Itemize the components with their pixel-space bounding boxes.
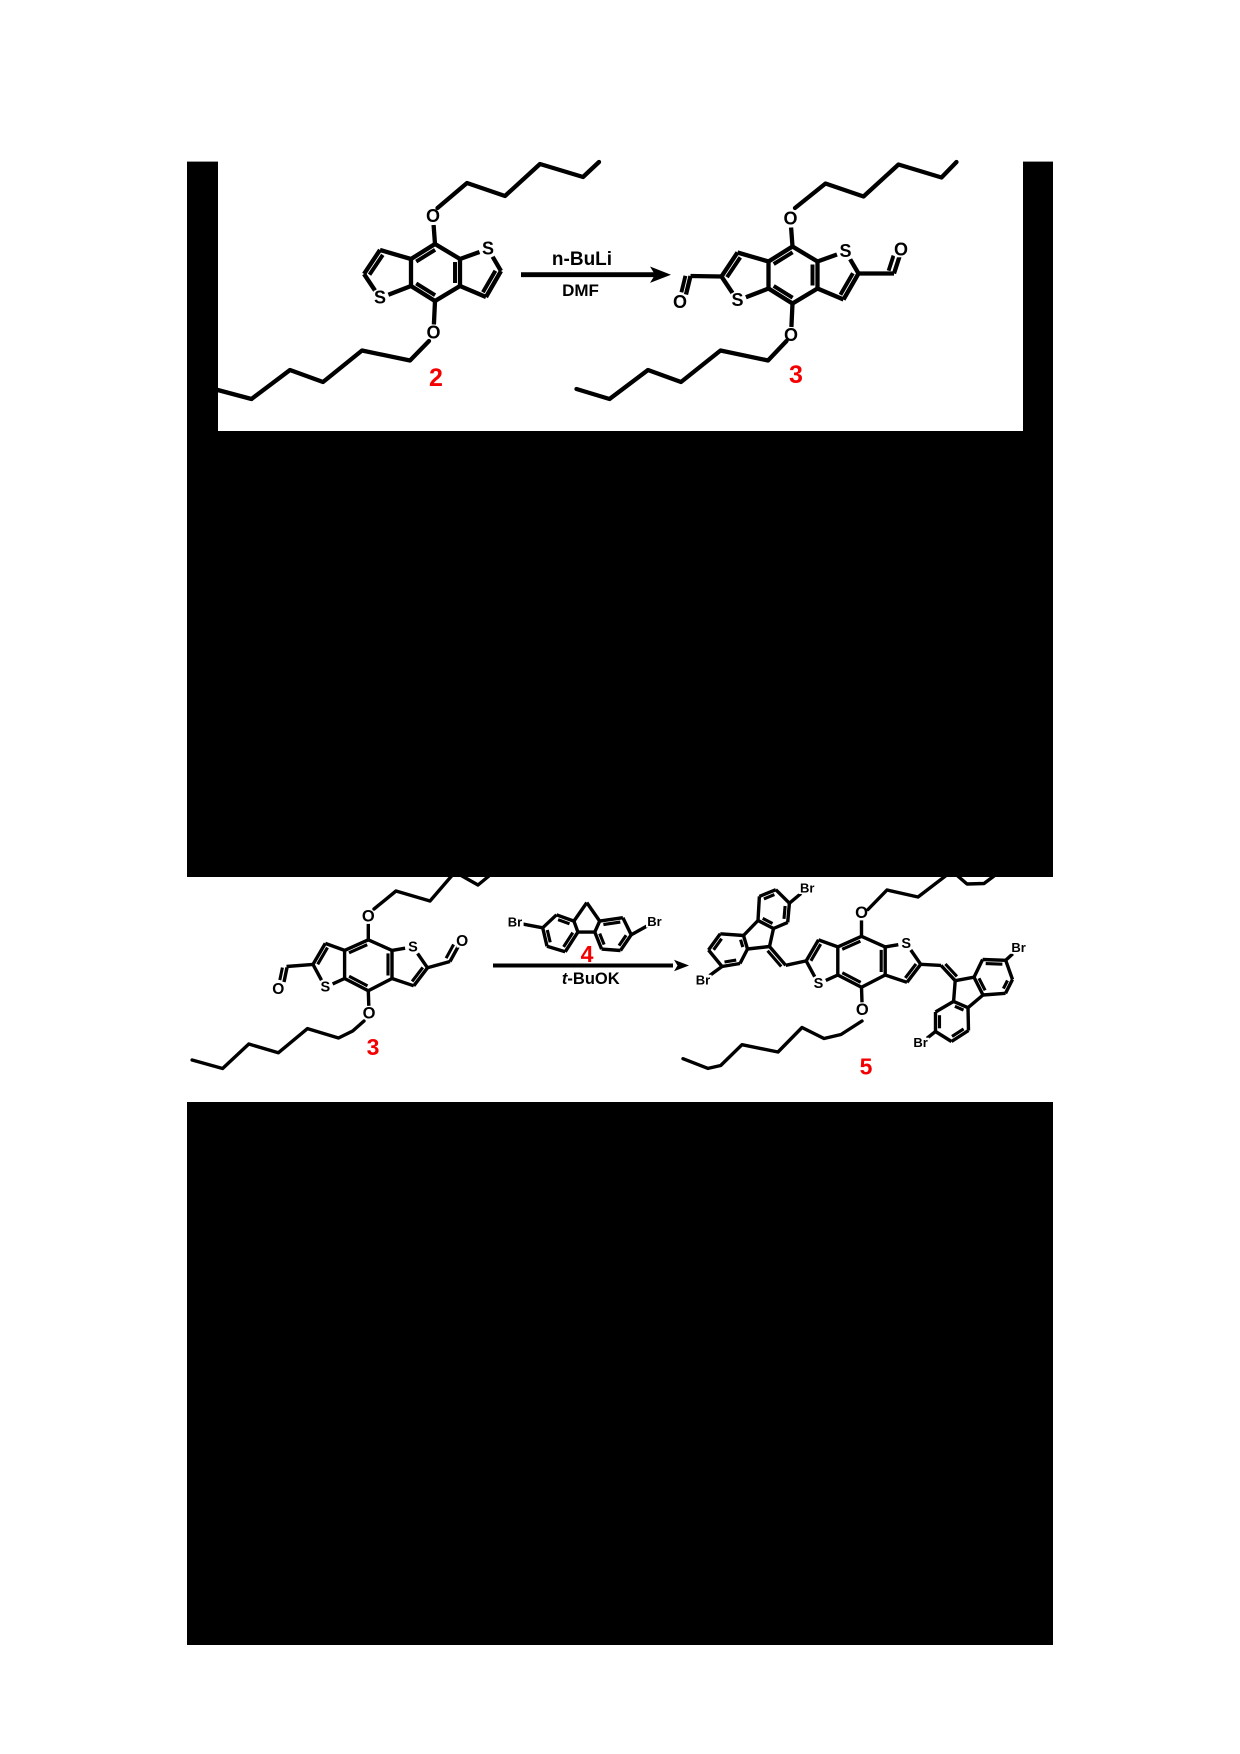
- compound 2: bottom hexyloxy chain: [214, 341, 429, 399]
- svg-text:O: O: [673, 292, 687, 312]
- reaction arrow 2: [493, 960, 689, 972]
- svg-text:n-BuLi: n-BuLi: [552, 249, 612, 270]
- compound 3 (scheme 2): benzodithiophene core: [313, 924, 428, 1006]
- red label 2: [429, 364, 443, 392]
- Br label (compound 5: left dibromofluorenylidene): [799, 883, 816, 894]
- Br bond (compound 5: right dibromofluorenylidene): [927, 1032, 936, 1039]
- Br label (compound 4: 2,7-dibromofluorene): [646, 916, 663, 927]
- svg-text:Br: Br: [508, 915, 522, 930]
- svg-text:S: S: [731, 290, 743, 310]
- reagent n-BuLi: [552, 249, 612, 270]
- Br bond (compound 4: 2,7-dibromofluorene): [523, 924, 543, 928]
- black redaction bar left (scheme 1 frame): [187, 162, 218, 431]
- compound 5: BDT core: benzodithiophene core: [806, 920, 921, 1002]
- svg-text:5: 5: [860, 1054, 873, 1080]
- svg-text:O: O: [456, 933, 468, 950]
- compound 5: BDT core: O atom labels: [856, 906, 868, 920]
- compound 4: 2,7-dibromofluorene: [543, 903, 632, 952]
- compound 3 (scheme 2): right aldehyde CHO: [428, 945, 459, 968]
- compound 5: right dibromofluorenylidene: [936, 960, 1013, 1042]
- Br label (compound 5: right dibromofluorenylidene): [1010, 943, 1027, 954]
- Br label (compound 5: left dibromofluorenylidene): [695, 975, 712, 986]
- compound 3 (scheme 2): top hexyloxy chain: [192, 871, 495, 1069]
- compound 3 (scheme 1): benzodithiophene core: [722, 228, 859, 328]
- compound 3: bottom hexyloxy chain: [577, 341, 787, 399]
- compound 5: right vinylene C=C: [921, 964, 957, 981]
- svg-text:t-BuOK: t-BuOK: [562, 970, 620, 988]
- black redaction bar right (scheme 1 frame): [1023, 162, 1053, 431]
- compound 2: S atom labels: [374, 206, 494, 343]
- svg-text:O: O: [855, 904, 868, 922]
- compound 2: benzodithiophene core: [364, 225, 501, 325]
- svg-text:O: O: [272, 981, 284, 998]
- compound 5: BDT core: S atom labels: [813, 904, 911, 1019]
- svg-text:O: O: [856, 1001, 869, 1019]
- black redaction block 2: [187, 1102, 1053, 1645]
- black redaction block 1: [187, 431, 1053, 877]
- svg-text:S: S: [374, 288, 386, 308]
- svg-text:4: 4: [581, 941, 594, 967]
- svg-text:Br: Br: [800, 880, 814, 895]
- svg-text:Br: Br: [647, 914, 661, 929]
- compound 3 (scheme 1): S atom labels: [731, 209, 851, 346]
- Br label (compound 4: 2,7-dibromofluorene): [507, 917, 524, 928]
- svg-text:2: 2: [429, 364, 443, 392]
- compound 2: O atom labels: [427, 209, 439, 224]
- svg-text:3: 3: [367, 1034, 380, 1060]
- svg-text:S: S: [901, 936, 911, 952]
- red label 4: [581, 941, 594, 967]
- reaction arrow 1: [521, 267, 671, 283]
- svg-text:S: S: [839, 241, 851, 261]
- compound 5: bottom hexyloxy chain: [683, 1021, 862, 1068]
- compound 3 (scheme 2): left aldehyde CHO: [280, 964, 313, 982]
- compound 3 (scheme 1): O atom labels: [784, 212, 796, 227]
- Br bond (compound 5: left dibromofluorenylidene): [789, 894, 801, 904]
- compound 3: top hexyloxy chain: [577, 162, 957, 399]
- svg-text:O: O: [783, 209, 797, 229]
- svg-text:S: S: [320, 980, 330, 996]
- svg-text:3: 3: [789, 361, 803, 389]
- compound 5: top hexyloxy chain: [683, 871, 998, 1068]
- svg-text:O: O: [894, 240, 908, 260]
- svg-text:S: S: [482, 239, 494, 259]
- compound 3 (scheme 2): S atom labels: [320, 908, 418, 1023]
- svg-text:DMF: DMF: [562, 281, 599, 300]
- reagent t-BuOK: [562, 970, 620, 988]
- reagent DMF: [562, 281, 599, 300]
- svg-text:Br: Br: [913, 1035, 927, 1050]
- red label 5: [860, 1054, 873, 1080]
- Br bond (compound 5: right dibromofluorenylidene): [1006, 954, 1013, 961]
- compound 5: left dibromofluorenylidene: [709, 890, 790, 967]
- svg-text:Br: Br: [1011, 940, 1025, 955]
- compound 3 (scheme 2): O atom labels: [363, 910, 375, 924]
- compound 2: top hexyloxy chain: [214, 162, 599, 399]
- svg-text:Br: Br: [696, 972, 710, 987]
- compound 3 (scheme 2): bottom hexyloxy chain: [192, 1021, 364, 1069]
- Br label (compound 5: right dibromofluorenylidene): [912, 1038, 929, 1049]
- compound 5: left vinylene C=C: [768, 947, 807, 967]
- Br bond (compound 4: 2,7-dibromofluorene): [631, 926, 647, 935]
- svg-text:S: S: [814, 976, 824, 992]
- compound 3: left aldehyde CHO: [681, 276, 721, 295]
- red label 3 (scheme 1): [789, 361, 803, 389]
- svg-text:S: S: [408, 939, 418, 955]
- red label 3 (scheme 2): [367, 1034, 380, 1060]
- compound 3: right aldehyde CHO: [859, 256, 900, 274]
- Br bond (compound 5: left dibromofluorenylidene): [710, 967, 723, 976]
